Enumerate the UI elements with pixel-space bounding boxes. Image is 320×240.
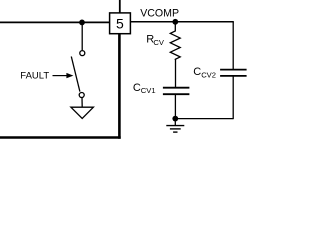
capacitor CCV1: [163, 88, 190, 95]
label CCV2: [193, 66, 216, 79]
switch top contact: [80, 51, 85, 56]
wire up to CCV2 bottom plate: [232, 76, 234, 119]
wire bottom contact to ground triangle: [81, 98, 83, 108]
IC right edge: [118, 34, 121, 139]
pin box 5: [110, 13, 131, 34]
switch blade: [71, 57, 80, 92]
svg-text:FAULT: FAULT: [20, 70, 49, 81]
svg-text:C: C: [193, 66, 201, 78]
ground triangle (IC internal): [71, 107, 94, 118]
svg-text:CV1: CV1: [141, 86, 156, 95]
resistor RCV: [170, 24, 180, 60]
svg-text:VCOMP: VCOMP: [140, 8, 179, 20]
wire VCOMP (pin 5 to right corner): [130, 21, 233, 23]
svg-text:5: 5: [116, 15, 124, 31]
wire resistor to CCV1: [175, 60, 177, 88]
FAULT arrow: [53, 73, 74, 78]
wire above pin box: [119, 0, 121, 13]
svg-text:CV2: CV2: [201, 70, 216, 79]
IC bottom edge: [0, 136, 121, 139]
switch bottom contact: [79, 93, 84, 98]
capacitor CCV2: [220, 70, 247, 76]
ground (3-bar) at CCV1 node: [166, 119, 184, 133]
junction dot at VCOMP node: [172, 19, 178, 25]
svg-text:CV: CV: [153, 38, 164, 47]
wire junction to switch top contact: [81, 22, 83, 50]
junction dot at FAULT switch / pin wire: [79, 20, 85, 26]
wire ground node to CCV2 (bottom): [175, 118, 233, 120]
label RCV: [146, 34, 165, 47]
wire VCOMP corner down to CCV2 top plate: [232, 22, 234, 69]
label CCV1: [133, 82, 156, 95]
svg-text:C: C: [133, 82, 141, 94]
junction dot at ground node: [172, 116, 178, 122]
wire CCV1 to ground node: [174, 95, 176, 119]
IC top edge / wire to pin 5: [0, 21, 110, 23]
